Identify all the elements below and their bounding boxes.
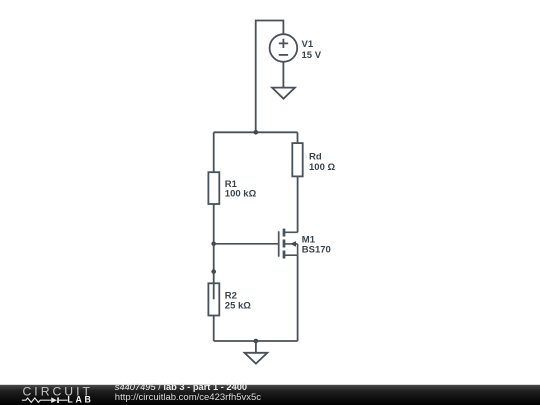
svg-text:s4407495 / lab 3 - part 1 - 24: s4407495 / lab 3 - part 1 - 2400 (115, 382, 247, 392)
svg-text:100 Ω: 100 Ω (309, 162, 335, 173)
resistor Rd (292, 143, 302, 176)
wire: supply rail node A horizontal (214, 131, 298, 133)
footer bar (0, 385, 540, 405)
wire: V1 plus terminal up and left to left rail down to node A (256, 21, 284, 133)
wire: ground stub (255, 341, 257, 353)
node A junction dot (254, 130, 259, 135)
svg-text:100 kΩ: 100 kΩ (225, 189, 257, 200)
voltage source V1 (270, 34, 298, 62)
wire: V1 minus terminal to ground (282, 62, 284, 88)
wire: gate wire to M1 (214, 243, 278, 245)
svg-text:BS170: BS170 (302, 245, 331, 256)
wire: R2 bottom to bottom rail (213, 316, 215, 342)
node: R2 top junction dot (211, 269, 216, 274)
node: bottom ground junction dot (254, 339, 259, 344)
logo resistor zigzag and diode (22, 398, 68, 402)
svg-text:15 V: 15 V (302, 50, 322, 61)
wire: node A down to R1 (213, 132, 215, 172)
wire: M1 source to bottom rail (297, 255, 299, 341)
resistor R2 (208, 283, 219, 315)
node: gate tee junction dot (211, 242, 216, 247)
svg-text:LAB: LAB (67, 395, 93, 405)
wire: node A to Rd (297, 132, 299, 143)
wire: R1 bottom to gate node (213, 204, 215, 244)
svg-text:25 kΩ: 25 kΩ (225, 301, 251, 312)
resistor R1 (208, 172, 219, 204)
wire: Rd bottom to M1 drain (297, 176, 299, 232)
wire: bottom rail horizontal (214, 340, 298, 342)
ground (bottom) (245, 353, 268, 364)
svg-text:http://circuitlab.com/ce423rfh: http://circuitlab.com/ce423rfh5vx5c (115, 392, 262, 403)
wire: gate node down to R2 node (213, 244, 215, 272)
svg-text:V1: V1 (302, 39, 314, 50)
ground (below V1) (272, 88, 295, 99)
wire: R2 lead overlapping body (213, 272, 215, 300)
transistor M1 (NMOS) (279, 229, 298, 259)
